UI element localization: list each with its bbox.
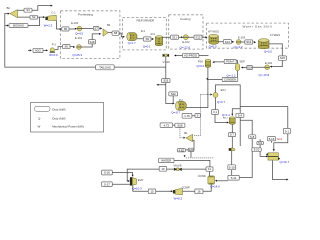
svg-text:S19: S19: [163, 79, 168, 83]
svg-text:Q=-8.7: Q=-8.7: [171, 111, 180, 115]
svg-text:5-1: 5-1: [285, 129, 289, 133]
svg-text:CONDEN: CONDEN: [224, 78, 236, 82]
svg-text:S14: S14: [246, 40, 251, 44]
svg-text:HT-WGS: HT-WGS: [208, 30, 219, 34]
svg-text:5-8: 5-8: [250, 135, 254, 139]
svg-text:E-103: E-103: [238, 35, 246, 39]
svg-text:S1B: S1B: [177, 123, 182, 127]
svg-text:Q=0.0: Q=0.0: [209, 45, 217, 49]
svg-text:Mechanical Power (kW): Mechanical Power (kW): [52, 125, 84, 129]
svg-text:VALVE: VALVE: [173, 164, 181, 168]
svg-text:5-15: 5-15: [269, 137, 275, 141]
svg-text:TAILGAS: TAILGAS: [99, 66, 111, 70]
svg-text:W=0.0: W=0.0: [49, 53, 58, 57]
svg-text:5-4: 5-4: [238, 113, 242, 117]
svg-text:3.1: 3.1: [213, 110, 217, 114]
svg-text:Q=4.5: Q=4.5: [75, 32, 83, 36]
svg-text:S4: S4: [26, 8, 30, 12]
svg-text:H2-PROD: H2-PROD: [184, 54, 197, 58]
svg-text:Q=-12.6: Q=-12.6: [180, 45, 191, 49]
svg-text:Q=0.0: Q=0.0: [264, 50, 272, 54]
svg-text:Q=14.0: Q=14.0: [210, 184, 220, 188]
svg-text:S-16: S-16: [104, 171, 110, 175]
svg-text:S11: S11: [172, 35, 177, 39]
svg-text:S7: S7: [94, 26, 98, 30]
svg-text:W=8.2: W=8.2: [174, 196, 183, 200]
svg-text:4.72: 4.72: [164, 123, 170, 127]
svg-text:C-1: C-1: [51, 10, 56, 14]
svg-text:Preheating: Preheating: [78, 12, 93, 16]
svg-text:S9: S9: [145, 37, 149, 41]
svg-text:Water Gas Shift: Water Gas Shift: [243, 25, 273, 29]
svg-text:REFORMER: REFORMER: [136, 18, 154, 22]
svg-text:R-1: R-1: [141, 29, 146, 33]
svg-text:1.76: 1.76: [184, 114, 190, 118]
svg-text:B2: B2: [7, 6, 11, 10]
svg-text:5-7: 5-7: [230, 133, 234, 137]
svg-text:Q=10.3: Q=10.3: [132, 187, 142, 191]
svg-text:B4: B4: [107, 23, 111, 27]
svg-text:EVP: EVP: [138, 178, 144, 182]
svg-text:Q=0.1: Q=0.1: [143, 45, 151, 49]
svg-text:S8: S8: [114, 31, 118, 35]
svg-text:PSA-F: PSA-F: [226, 60, 235, 64]
svg-text:COND: COND: [198, 174, 206, 178]
svg-text:S15: S15: [280, 56, 285, 60]
svg-text:E-104: E-104: [265, 61, 273, 65]
svg-text:10: 10: [161, 167, 165, 171]
svg-text:5-11: 5-11: [231, 176, 237, 180]
svg-text:W=2.3: W=2.3: [44, 23, 53, 27]
svg-text:S18: S18: [247, 66, 252, 70]
svg-text:SEP: SEP: [240, 59, 246, 63]
svg-text:LT-WGS: LT-WGS: [270, 33, 280, 37]
svg-text:Q=-10.8: Q=-10.8: [259, 73, 270, 77]
svg-text:WATER: WATER: [161, 159, 171, 163]
svg-text:S6: S6: [64, 45, 68, 49]
svg-text:P-1: P-1: [52, 43, 57, 47]
svg-text:5-10: 5-10: [229, 165, 235, 169]
svg-text:Tamb: Tamb: [277, 139, 283, 141]
svg-text:E-101: E-101: [75, 36, 83, 40]
svg-text:RE-1: RE-1: [223, 118, 229, 120]
svg-text:Q=0.7: Q=0.7: [217, 100, 225, 104]
svg-text:5-9: 5-9: [258, 141, 262, 145]
svg-text:FU: FU: [179, 98, 183, 102]
svg-text:S5: S5: [64, 27, 68, 31]
svg-text:BIOGAS: BIOGAS: [13, 24, 24, 28]
svg-text:Duty (kW): Duty (kW): [52, 117, 65, 121]
svg-text:Cooling: Cooling: [180, 17, 191, 21]
svg-text:Q=1.4: Q=1.4: [222, 113, 230, 117]
svg-text:B1: B1: [184, 131, 188, 135]
svg-text:H2O: H2O: [35, 49, 42, 53]
svg-text:S2: S2: [32, 15, 36, 19]
svg-text:S: S: [197, 114, 199, 118]
svg-text:EX1: EX1: [221, 88, 227, 92]
svg-text:W: W: [38, 125, 41, 129]
svg-text:V-100: V-100: [163, 60, 171, 64]
svg-text:Q=-3.2: Q=-3.2: [234, 45, 243, 49]
svg-text:S12: S12: [196, 35, 201, 39]
svg-text:S22: S22: [171, 92, 176, 96]
svg-text:4.82: 4.82: [179, 148, 185, 152]
svg-text:S13: S13: [225, 40, 230, 44]
svg-text:Duty (kW): Duty (kW): [52, 108, 65, 112]
svg-text:E-100: E-100: [71, 21, 79, 25]
svg-text:S16: S16: [90, 40, 95, 44]
svg-text:5-10: 5-10: [254, 148, 260, 152]
svg-text:Q=0.0: Q=0.0: [196, 64, 204, 68]
svg-text:R-2: R-2: [151, 32, 156, 36]
svg-text:E-102: E-102: [182, 40, 190, 44]
svg-text:Q=16.7: Q=16.7: [280, 160, 290, 164]
svg-text:COMP: COMP: [182, 185, 190, 189]
svg-text:15: 15: [150, 190, 154, 194]
svg-text:S-17: S-17: [104, 182, 110, 186]
svg-text:Q=1.7: Q=1.7: [128, 41, 136, 45]
svg-text:11: 11: [208, 167, 211, 171]
svg-text:S20: S20: [189, 148, 194, 152]
svg-text:Q=25.3: Q=25.3: [72, 53, 82, 57]
svg-text:16: 16: [197, 190, 201, 194]
